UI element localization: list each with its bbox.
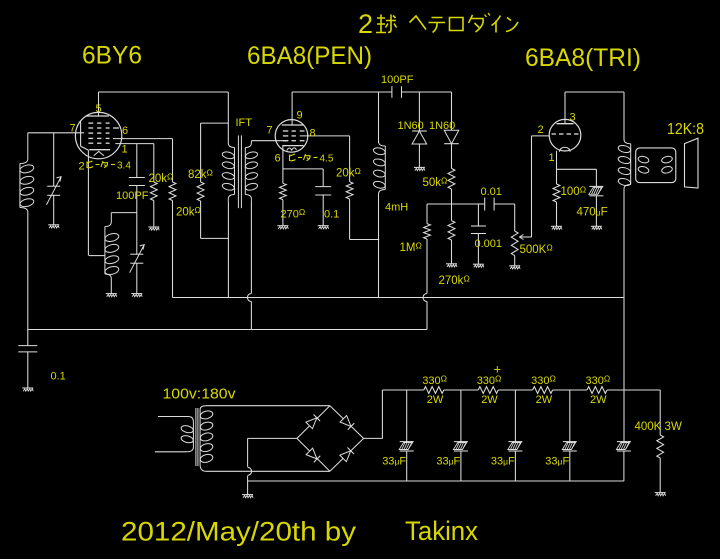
svg-text:8: 8 [310, 128, 316, 140]
svg-text:3.4: 3.4 [117, 161, 131, 172]
svg-text:12K:8: 12K:8 [667, 121, 704, 138]
svg-text:0.1: 0.1 [324, 209, 339, 221]
svg-text:2W: 2W [590, 394, 607, 406]
svg-text:0.1: 0.1 [51, 371, 66, 383]
svg-text:100PF: 100PF [381, 74, 414, 86]
svg-text:2012/May/20th by: 2012/May/20th by [121, 517, 357, 547]
svg-text:0.01: 0.01 [481, 186, 502, 198]
svg-text:IFT: IFT [236, 117, 253, 129]
svg-text:7: 7 [70, 123, 76, 135]
svg-text:100PF: 100PF [116, 190, 149, 202]
svg-text:1: 1 [549, 152, 555, 164]
svg-text:6BA8(TRI): 6BA8(TRI) [525, 44, 641, 72]
svg-text:+: + [494, 362, 502, 377]
svg-text:6BY6: 6BY6 [82, 42, 142, 70]
svg-text:100v:180v: 100v:180v [163, 386, 237, 403]
svg-text:4.5: 4.5 [320, 154, 334, 165]
svg-text:2: 2 [358, 9, 373, 39]
svg-text:0.001: 0.001 [475, 238, 503, 250]
svg-text:33μF: 33μF [491, 455, 515, 467]
svg-text:3: 3 [570, 112, 576, 124]
svg-text:Takinx: Takinx [405, 516, 478, 546]
svg-text:470μF: 470μF [577, 207, 608, 219]
svg-text:1: 1 [122, 144, 128, 156]
svg-text:33μF: 33μF [436, 455, 460, 467]
svg-text:33μF: 33μF [545, 455, 569, 467]
svg-text:2: 2 [79, 161, 85, 173]
svg-text:2W: 2W [481, 394, 498, 406]
svg-text:2W: 2W [427, 394, 444, 406]
svg-text:2: 2 [538, 124, 544, 136]
svg-text:9: 9 [297, 110, 303, 122]
svg-text:6BA8(PEN): 6BA8(PEN) [247, 42, 372, 70]
svg-text:1N60: 1N60 [398, 120, 424, 132]
svg-text:5: 5 [96, 103, 102, 115]
svg-text:1N60: 1N60 [429, 120, 455, 132]
svg-text:400K 3W: 400K 3W [635, 421, 682, 433]
svg-text:6: 6 [275, 153, 281, 165]
svg-text:6: 6 [122, 125, 128, 137]
svg-text:33μF: 33μF [382, 455, 406, 467]
svg-text:2W: 2W [536, 394, 553, 406]
svg-text:4mH: 4mH [385, 202, 408, 214]
svg-text:7: 7 [267, 125, 273, 137]
